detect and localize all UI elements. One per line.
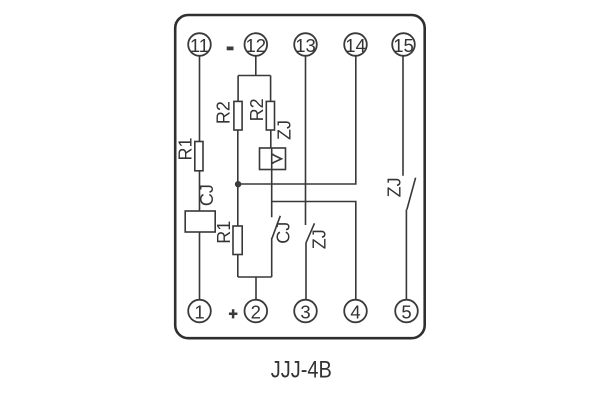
- svg-text:ZJ: ZJ: [309, 229, 329, 249]
- svg-text:R1: R1: [214, 221, 234, 244]
- svg-text:ZJ: ZJ: [275, 120, 295, 140]
- svg-text:11: 11: [190, 35, 209, 56]
- svg-text:13: 13: [295, 35, 316, 56]
- svg-text:R2: R2: [247, 98, 267, 121]
- svg-text:R2: R2: [214, 101, 234, 124]
- svg-text:15: 15: [393, 35, 414, 56]
- svg-text:1: 1: [194, 301, 204, 322]
- svg-text:JJJ-4B: JJJ-4B: [271, 357, 332, 384]
- svg-text:4: 4: [350, 301, 360, 322]
- svg-text:CJ: CJ: [274, 222, 294, 244]
- svg-text:ZJ: ZJ: [385, 177, 405, 197]
- svg-text:12: 12: [246, 35, 267, 56]
- svg-text:2: 2: [251, 301, 261, 322]
- svg-text:5: 5: [401, 301, 411, 322]
- svg-text:CJ: CJ: [197, 184, 217, 206]
- svg-text:3: 3: [300, 301, 310, 322]
- svg-text:R1: R1: [176, 137, 196, 160]
- svg-text:14: 14: [345, 35, 366, 56]
